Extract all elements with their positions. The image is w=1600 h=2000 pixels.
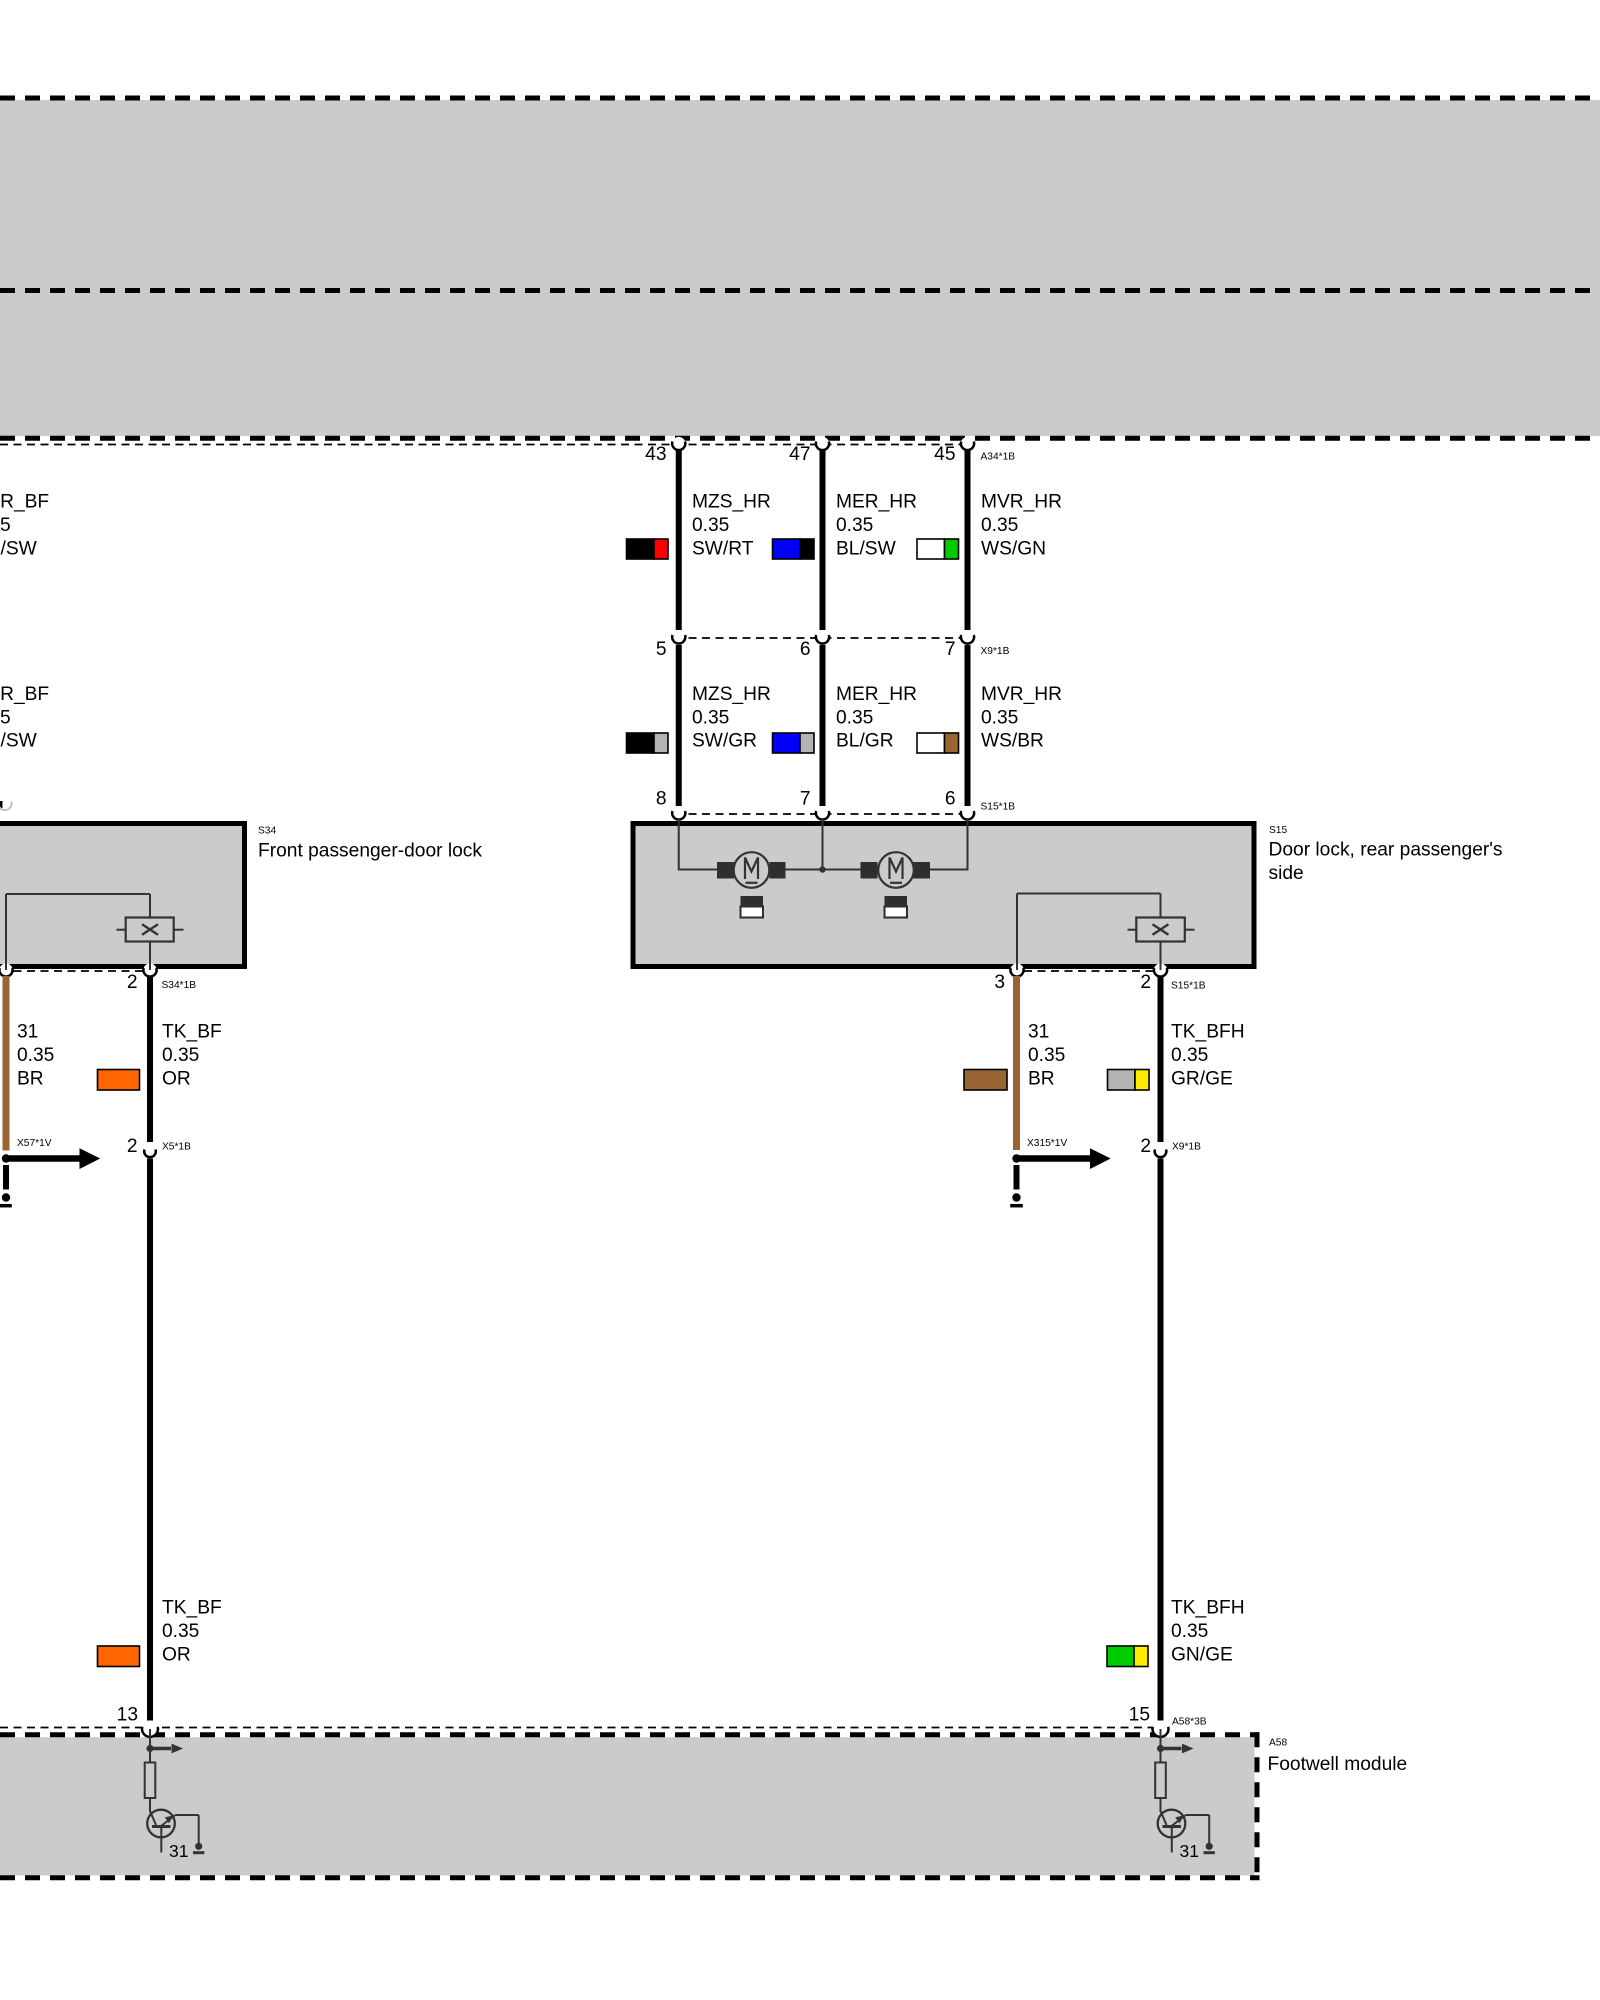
motor M2 — [861, 852, 931, 888]
wire MZS_HR upper — [676, 450, 682, 630]
svg-text:TK_BFH: TK_BFH — [1171, 1597, 1245, 1618]
ground splice X57*1V — [0, 1138, 100, 1206]
svg-text:WS/SW: WS/SW — [0, 731, 38, 752]
svg-text:GR/GE: GR/GE — [1171, 1068, 1233, 1089]
wire MER_HR lower — [820, 645, 826, 806]
svg-text:Front passenger-door lock: Front passenger-door lock — [258, 840, 482, 861]
wire 31 BR brown right — [1013, 976, 1020, 1150]
svg-text:2: 2 — [1140, 1136, 1151, 1157]
svg-text:8: 8 — [656, 788, 667, 809]
colour swatch GN/GE bottom — [1107, 1646, 1148, 1667]
svg-text:0.35: 0.35 — [836, 707, 873, 728]
svg-text:0.35: 0.35 — [692, 515, 729, 536]
wire TK_BFH upper segment — [1158, 976, 1164, 1142]
svg-text:S15: S15 — [1269, 825, 1287, 836]
svg-text:2: 2 — [1140, 972, 1151, 993]
svg-text:TK_BF: TK_BF — [162, 1021, 222, 1042]
svg-text:X57*1V: X57*1V — [17, 1138, 52, 1149]
svg-text:0.35: 0.35 — [162, 1621, 199, 1642]
svg-text:MVR_HR: MVR_HR — [981, 684, 1062, 705]
module box A58 footwell module — [0, 1732, 1260, 1880]
colour swatch GR/GE — [1108, 1070, 1150, 1091]
wire 31 BR brown left — [3, 976, 10, 1151]
colour swatch BL/SW — [773, 539, 815, 559]
svg-text:3: 3 — [994, 972, 1005, 993]
S34 internal circuit — [6, 894, 150, 967]
wire label MER_HR 0.35 BL/SW — [836, 492, 917, 560]
svg-text:31: 31 — [17, 1021, 38, 1042]
S15 lock switch — [1128, 918, 1195, 942]
wire label 31 0.35 BR left — [17, 1021, 54, 1089]
svg-text:5: 5 — [656, 639, 667, 660]
colour swatch SW/RT — [627, 539, 669, 559]
svg-text:X9*1B: X9*1B — [981, 646, 1010, 657]
connector X5*1B cup — [144, 1145, 156, 1157]
svg-text:SW/RT: SW/RT — [692, 538, 754, 559]
svg-text:S15*1B: S15*1B — [1171, 981, 1206, 992]
svg-text:TK_BFH: TK_BFH — [1171, 1021, 1245, 1042]
svg-text:0.35: 0.35 — [0, 707, 11, 728]
module box top (body control modules, clipped) — [0, 98, 1600, 438]
svg-text:TK_BF: TK_BF — [162, 1597, 222, 1618]
svg-text:OR: OR — [162, 1644, 191, 1665]
colour swatch BL/GR — [773, 733, 815, 753]
connector A34*1B dashed line — [0, 444, 968, 446]
svg-text:A34*1B: A34*1B — [981, 452, 1016, 463]
ground splice X315*1V — [1010, 1138, 1110, 1206]
connector cup pin 6 — [961, 806, 974, 819]
svg-text:31: 31 — [1180, 1841, 1199, 1861]
A58 internal circuit right — [1155, 1729, 1215, 1853]
svg-text:MZS_HR: MZS_HR — [692, 684, 771, 705]
svg-text:Door lock, rear passenger's: Door lock, rear passenger's — [1269, 839, 1503, 860]
svg-text:X5*1B: X5*1B — [162, 1142, 191, 1153]
connector cup pin 6 X9*1B — [816, 630, 829, 643]
connector cup pin 13 — [142, 1721, 158, 1737]
clipped left wire label VR_BF upper — [0, 492, 49, 560]
svg-text:15: 15 — [1129, 1705, 1150, 1726]
connector cup S34 left pin — [0, 963, 13, 976]
svg-text:BL/GR: BL/GR — [836, 731, 894, 752]
svg-text:6: 6 — [800, 639, 811, 660]
svg-text:2: 2 — [127, 972, 138, 993]
wire TK_BF long segment — [147, 1159, 153, 1721]
svg-text:43: 43 — [645, 444, 666, 465]
colour swatch WS/GN — [917, 539, 959, 559]
connector cup pin 45 A34*1B — [961, 437, 974, 450]
label Door lock, rear passenger's side — [1269, 839, 1503, 884]
connector cup pin 47 A34*1B — [816, 437, 829, 450]
connector cup pin 43 A34*1B — [672, 437, 685, 450]
svg-text:47: 47 — [789, 444, 810, 465]
wire MVR_HR upper — [965, 450, 971, 630]
wire into S15 pin 7 to junction — [822, 818, 824, 870]
svg-text:31: 31 — [1028, 1021, 1049, 1042]
connector cup pin 7 — [816, 806, 829, 819]
svg-text:0.35: 0.35 — [981, 515, 1018, 536]
wire label MZS_HR 0.35 SW/GR — [692, 684, 771, 752]
svg-text:X9*1B: X9*1B — [1172, 1142, 1201, 1153]
wire label TK_BF 0.35 OR bottom — [162, 1597, 222, 1665]
A58 internal circuit left — [145, 1729, 205, 1853]
svg-text:0.35: 0.35 — [162, 1045, 199, 1066]
svg-text:0.35: 0.35 — [692, 707, 729, 728]
svg-text:MER_HR: MER_HR — [836, 684, 917, 705]
svg-text:MVR_HR: MVR_HR — [981, 492, 1062, 513]
svg-text:7: 7 — [945, 639, 956, 660]
svg-text:BR: BR — [17, 1068, 44, 1089]
colour swatch WS/BR — [917, 733, 959, 753]
svg-text:MVR_BF: MVR_BF — [0, 684, 49, 705]
svg-text:SW/GR: SW/GR — [692, 731, 757, 752]
connector A58*3B dashed line — [0, 1727, 1161, 1729]
svg-text:7: 7 — [800, 788, 811, 809]
svg-text:2: 2 — [127, 1136, 138, 1157]
connector cup S15 pin 3 — [1010, 963, 1023, 976]
connector X9*1B dashed line — [675, 637, 971, 639]
connector S15*1B dashed line under S15 — [1024, 970, 1153, 972]
motor M2 position contact — [885, 896, 908, 918]
svg-text:0.35: 0.35 — [981, 707, 1018, 728]
S34 lock switch — [117, 918, 184, 942]
svg-text:A58*3B: A58*3B — [1172, 1717, 1207, 1728]
wire label 31 0.35 BR right — [1028, 1021, 1065, 1089]
wire motor1 right to motor2 left — [786, 869, 861, 871]
colour swatch BR — [964, 1070, 1007, 1091]
wire label MER_HR 0.35 BL/GR — [836, 684, 917, 752]
motor M1 position contact — [741, 896, 764, 918]
connector S15*1B dashed line (top of S15) — [675, 813, 971, 815]
connector cup S15 pin 2 — [1154, 963, 1167, 976]
colour swatch OR — [98, 1070, 140, 1091]
svg-text:13: 13 — [117, 1705, 138, 1726]
wire TK_BF upper segment — [147, 976, 153, 1142]
svg-text:S34: S34 — [258, 826, 276, 837]
svg-text:0.35: 0.35 — [0, 515, 11, 536]
wire label MVR_HR 0.35 WS/GN — [981, 492, 1062, 560]
svg-text:WS/GN: WS/GN — [981, 538, 1046, 559]
svg-text:A58: A58 — [1269, 1738, 1287, 1749]
svg-text:X315*1V: X315*1V — [1027, 1138, 1067, 1149]
wire label MZS_HR 0.35 SW/RT — [692, 492, 771, 560]
connector S34*1B dashed line under S34 — [0, 970, 144, 972]
motor M1 — [717, 852, 786, 888]
wire MER_HR upper — [820, 450, 826, 630]
junction dot — [819, 866, 825, 872]
colour swatch OR bottom — [98, 1646, 140, 1667]
wire MVR_HR lower — [965, 645, 971, 806]
svg-text:GN/GE: GN/GE — [1171, 1644, 1233, 1665]
svg-text:45: 45 — [934, 444, 955, 465]
wire TK_BFH long segment — [1158, 1159, 1164, 1721]
svg-text:S34*1B: S34*1B — [162, 980, 197, 991]
connector cup pin 15 — [1153, 1721, 1169, 1737]
component box S15 door lock rear passenger side — [633, 824, 1254, 967]
wire label TK_BF 0.35 OR — [162, 1021, 222, 1089]
svg-text:OR: OR — [162, 1068, 191, 1089]
wire stub in cup S15 pin 2 — [1160, 963, 1162, 970]
svg-text:BR: BR — [1028, 1068, 1055, 1089]
svg-text:0.35: 0.35 — [1028, 1045, 1065, 1066]
wire stub in cup S15 pin 3 — [1016, 963, 1018, 970]
svg-text:Footwell module: Footwell module — [1268, 1754, 1408, 1775]
component box S34 front passenger door lock — [0, 824, 245, 967]
clipped left wire label VR_BF lower — [0, 684, 49, 752]
wire label TK_BFH 0.35 GN/GE bottom — [1171, 1597, 1245, 1665]
svg-text:31: 31 — [169, 1841, 188, 1861]
connector cup pin 5 X9*1B — [672, 630, 685, 643]
wire MZS_HR lower — [676, 645, 682, 806]
wire label TK_BFH 0.35 GR/GE — [1171, 1021, 1245, 1089]
wire into S15 pin 6 to motor 2 — [930, 818, 968, 870]
faint clipped connector cup left — [0, 802, 12, 811]
svg-text:BL/SW: BL/SW — [836, 538, 897, 559]
svg-text:6: 6 — [945, 788, 956, 809]
connector cup pin 8 — [672, 806, 685, 819]
svg-text:0.35: 0.35 — [17, 1045, 54, 1066]
wire stub in cup S34 left — [5, 963, 7, 970]
clipped pin number sliver top-left of S34 — [0, 801, 3, 808]
svg-text:MZS_HR: MZS_HR — [692, 492, 771, 513]
wire into S15 pin 8 to motor 1 — [679, 818, 717, 870]
svg-text:WS/BR: WS/BR — [981, 731, 1044, 752]
svg-text:side: side — [1269, 863, 1304, 884]
svg-text:0.35: 0.35 — [1171, 1621, 1208, 1642]
colour swatch SW/GR — [627, 733, 669, 753]
svg-text:MVR_BF: MVR_BF — [0, 492, 49, 513]
svg-text:0.35: 0.35 — [1171, 1045, 1208, 1066]
svg-text:0.35: 0.35 — [836, 515, 873, 536]
wire stub in cup S34 pin 2 — [149, 963, 151, 970]
connector cup pin 7 X9*1B — [961, 630, 974, 643]
svg-text:S15*1B: S15*1B — [981, 802, 1016, 813]
wire label MVR_HR 0.35 WS/BR — [981, 684, 1062, 752]
svg-text:MER_HR: MER_HR — [836, 492, 917, 513]
S15 internal switch circuit — [1017, 894, 1161, 968]
svg-text:WS/SW: WS/SW — [0, 538, 38, 559]
connector cup S34 pin 2 — [143, 963, 156, 976]
connector X9*1B cup lower — [1155, 1145, 1167, 1157]
